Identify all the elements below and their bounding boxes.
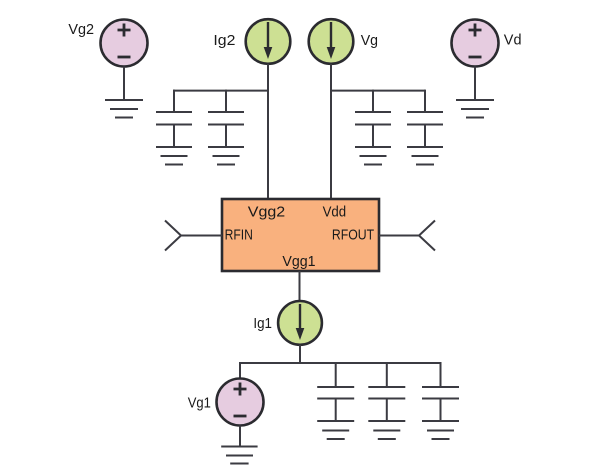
RF input port connector — [165, 221, 181, 251]
wire C2 to ground — [225, 125, 227, 148]
capacitor C3 — [355, 112, 391, 125]
svg-text:Ig1: Ig1 — [253, 315, 272, 332]
svg-text:RFOUT: RFOUT — [332, 227, 374, 244]
wire Vg to block Vdd pin — [330, 64, 332, 199]
capacitor C2 — [208, 112, 244, 125]
RF output port connector — [419, 221, 435, 251]
current source Vg — [309, 19, 354, 64]
wire stub to C5 — [335, 362, 337, 387]
svg-text:Vdd: Vdd — [323, 203, 347, 220]
wire Ig2 to block Vgg2 pin — [267, 64, 269, 199]
capacitor C5 — [317, 387, 354, 399]
wire Vd to ground — [474, 67, 476, 101]
voltage source Vd — [452, 20, 499, 67]
capacitor C1 — [156, 112, 192, 125]
wire Vg2 to ground — [123, 67, 125, 101]
ground (C6) — [368, 421, 405, 439]
amplifier block U1 — [222, 199, 379, 271]
wire stub to C4 — [424, 90, 426, 112]
ground (C4) — [407, 147, 443, 165]
svg-text:Vg2: Vg2 — [68, 21, 94, 38]
wire C3 to ground — [372, 125, 374, 148]
ground (C3) — [355, 147, 391, 165]
wire C7 to ground — [440, 399, 442, 422]
svg-text:Vg: Vg — [361, 32, 378, 49]
wire stub to C7 — [440, 362, 442, 387]
ground (C1) — [156, 147, 192, 165]
svg-text:Ig2: Ig2 — [213, 32, 235, 49]
wire C5 to ground — [335, 399, 337, 422]
voltage source Vg1 — [217, 379, 264, 426]
capacitor C7 — [422, 387, 459, 399]
wire left decoupling bus — [173, 90, 268, 92]
svg-text:RFIN: RFIN — [225, 227, 253, 244]
svg-text:Vgg1: Vgg1 — [282, 253, 315, 270]
svg-text:Vd: Vd — [504, 32, 522, 49]
wire C4 to ground — [424, 125, 426, 148]
wire stub to C1 — [173, 90, 175, 112]
ground (Vd) — [456, 100, 494, 118]
wire Vgg1 pin to Ig1 — [299, 271, 301, 302]
wire stub to C3 — [372, 90, 374, 112]
wire stub to C2 — [225, 90, 227, 112]
svg-text:Vg1: Vg1 — [188, 395, 211, 412]
ground (Vg2) — [105, 100, 143, 118]
ground (C7) — [422, 421, 459, 439]
wire C1 to ground — [173, 125, 175, 148]
capacitor C6 — [368, 387, 405, 399]
wire Vg1 to ground — [239, 426, 241, 447]
ground (C5) — [317, 421, 354, 439]
wire bottom bus — [239, 362, 441, 364]
wire right decoupling bus — [331, 90, 425, 92]
current source Ig1 — [278, 301, 322, 345]
wire RFIN lead — [181, 235, 222, 237]
voltage source Vg2 — [101, 20, 148, 67]
ground (Vg1) — [221, 447, 257, 464]
wire stub bus to Vg1 — [239, 362, 241, 379]
wire Ig1 to bottom bus — [299, 345, 301, 363]
svg-text:Vgg2: Vgg2 — [248, 203, 286, 220]
ground (C2) — [208, 147, 244, 165]
wire RFOUT lead — [379, 235, 419, 237]
wire C6 to ground — [386, 399, 388, 422]
wire stub to C6 — [386, 362, 388, 387]
current source Ig2 — [246, 19, 291, 64]
capacitor C4 — [407, 112, 443, 125]
